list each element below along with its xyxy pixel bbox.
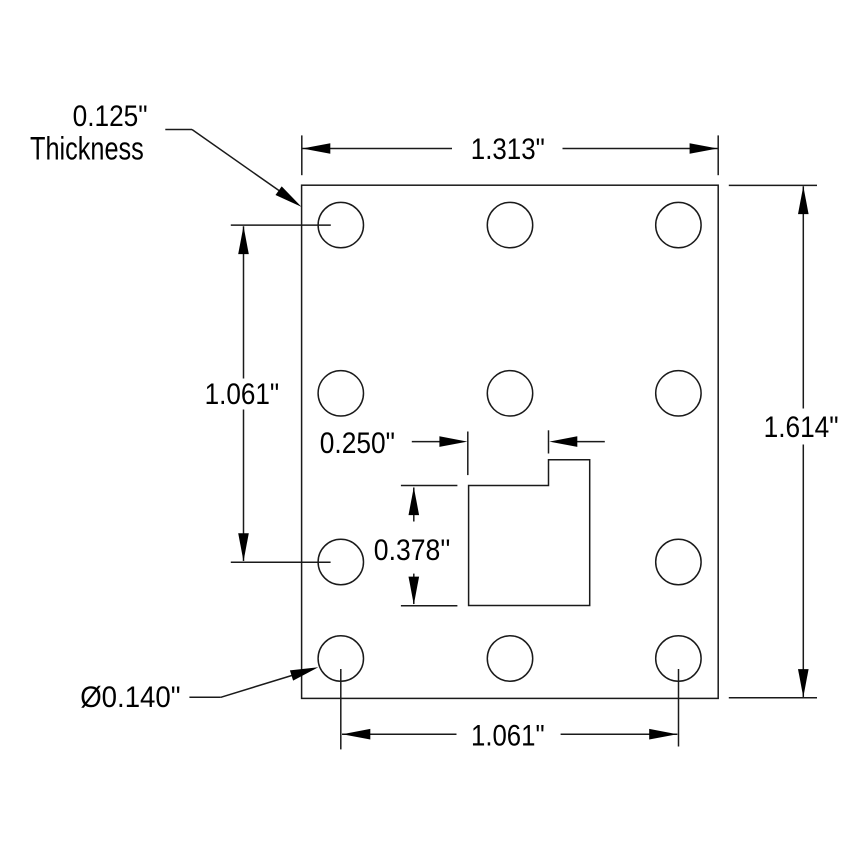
dim 1.061 left line bottom segment bbox=[243, 410, 245, 562]
svg-text:0.250": 0.250" bbox=[320, 428, 395, 460]
thickness leader arrow bbox=[276, 186, 302, 207]
dim 0.378 arrow up bbox=[409, 487, 420, 515]
hole row 4 col 1 bbox=[318, 636, 363, 681]
dim 0.378 leader line bottom bbox=[413, 574, 415, 604]
thickness leader horizontal bbox=[165, 129, 192, 131]
dim 0.378 arrow down bbox=[409, 577, 420, 605]
dim 0.250 arrow right bbox=[549, 436, 577, 447]
dim 0.378 leader line top bbox=[413, 488, 415, 522]
dim 1.313 extension line left bbox=[301, 135, 303, 175]
hole row 3 col 1 bbox=[318, 539, 363, 584]
hole row 4 col 2 bbox=[487, 636, 532, 681]
dim 1.313 arrow right bbox=[690, 143, 718, 154]
dim 1.061 bottom line right segment bbox=[561, 733, 678, 735]
dim 1.061 left line top segment bbox=[243, 226, 245, 378]
dim 0.378 extension line bottom bbox=[401, 605, 458, 607]
dim 0.250 extension line right bbox=[548, 430, 550, 453]
dim 1.061 bottom arrow left bbox=[342, 729, 370, 740]
dim 1.614 arrow top bbox=[798, 186, 809, 214]
dim 1.061 bottom arrow right bbox=[649, 729, 677, 740]
dim 1.614 extension line top bbox=[729, 184, 817, 186]
dim 1.614 line top segment bbox=[802, 186, 804, 408]
svg-text:0.378'': 0.378'' bbox=[374, 535, 451, 567]
dim 1.313 line right segment bbox=[563, 148, 718, 150]
dim 1.614 arrow bottom bbox=[798, 669, 809, 697]
notched cutout bbox=[469, 460, 590, 606]
hole row 4 col 3 bbox=[656, 636, 701, 681]
dim 0.378 extension line top bbox=[401, 485, 458, 487]
svg-text:1.061": 1.061" bbox=[205, 379, 280, 411]
dim 1.313 line left segment bbox=[303, 148, 453, 150]
hole row 1 col 2 bbox=[487, 202, 532, 247]
svg-text:1.313": 1.313" bbox=[471, 134, 545, 166]
dim 0.250 leader line left bbox=[412, 441, 440, 443]
plate outline bbox=[302, 185, 719, 698]
dim 0.250 leader line right bbox=[577, 441, 605, 443]
dim 0.250 extension line left bbox=[467, 432, 469, 476]
svg-text:Thickness: Thickness bbox=[30, 131, 144, 167]
dim 1.313 arrow left bbox=[302, 143, 330, 154]
dim 1.061 left arrow bottom bbox=[238, 533, 249, 561]
svg-text:Ø0.140": Ø0.140" bbox=[80, 682, 180, 714]
dim 1.313 extension line right bbox=[717, 135, 719, 175]
svg-text:0.125": 0.125" bbox=[73, 101, 148, 133]
dim 1.061 bottom extension line right bbox=[678, 669, 680, 747]
dim 1.614 line bottom segment bbox=[802, 445, 804, 698]
dim 1.061 left extension line top bbox=[231, 224, 331, 226]
hole row 1 col 3 bbox=[656, 202, 701, 247]
hole row 3 col 3 bbox=[656, 539, 701, 584]
diameter leader diagonal bbox=[221, 675, 293, 697]
dim 1.061 bottom line left segment bbox=[342, 733, 457, 735]
dim 1.614 extension line bottom bbox=[729, 697, 817, 699]
hole row 1 col 1 bbox=[318, 202, 363, 247]
hole row 2 col 1 bbox=[318, 371, 363, 416]
dim 1.061 left arrow top bbox=[238, 226, 249, 254]
svg-text:1.061": 1.061" bbox=[471, 721, 545, 753]
svg-text:1.614": 1.614" bbox=[764, 412, 839, 444]
hole row 2 col 3 bbox=[656, 371, 701, 416]
diameter leader horizontal bbox=[189, 696, 220, 698]
thickness leader diagonal bbox=[192, 130, 280, 192]
diameter leader arrow bbox=[290, 667, 318, 680]
dim 0.250 arrow left bbox=[439, 436, 467, 447]
dim 1.061 left extension line bottom bbox=[231, 561, 331, 563]
dim 1.061 bottom extension line left bbox=[340, 669, 342, 749]
hole row 2 col 2 bbox=[487, 371, 532, 416]
